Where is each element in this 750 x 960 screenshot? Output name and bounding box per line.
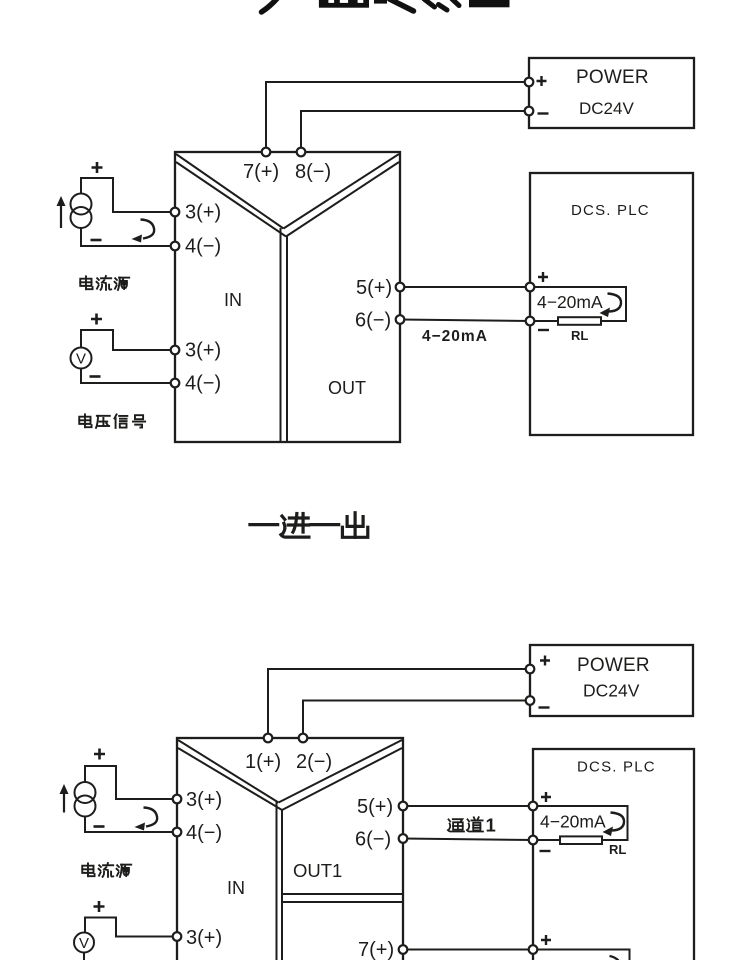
current source wire + [85,766,177,799]
loop arrow dcs ch2 partial [610,956,619,960]
loop arrow current source bottom [135,808,158,831]
current direction arrow up bottom [60,784,69,813]
terminal 3 voltage [173,932,182,941]
svg-text:1: 1 [486,815,496,836]
isolation V left diagonal outer [178,740,279,803]
svg-text:6(−): 6(−) [355,829,391,851]
svg-text:POWER: POWER [576,67,649,88]
wire out 6 [403,839,533,841]
label 电压信号 [79,414,145,428]
wire power - [303,701,530,739]
current source symbol [71,194,92,229]
voltage source symbol [71,348,92,369]
svg-text:OUT1: OUT1 [293,860,342,881]
terminal 5 [396,283,405,292]
label 通道1 [448,817,483,831]
voltage source wire + [85,918,177,937]
svg-text:4−20mA: 4−20mA [537,292,603,312]
isolation V left diagonal inner [178,748,282,810]
isolation V right diagonal outer [279,740,403,803]
svg-text:DCS. PLC: DCS. PLC [577,759,656,776]
svg-text:3(+): 3(+) [186,789,222,811]
char 线 partial [424,0,435,7]
svg-text:2(−): 2(−) [296,751,332,773]
svg-text:IN: IN [227,878,245,898]
svg-text:RL: RL [571,328,588,343]
char 接 partial [374,0,387,4]
isolation barrier vertical double line [280,228,282,442]
loop arrow dcs [600,294,622,318]
wire out 7 [403,949,533,951]
power terminal + [526,665,535,674]
svg-text:POWER: POWER [577,655,650,676]
terminals bottom diagram [173,665,538,954]
POWER box [530,645,693,716]
wire out 5 [403,805,533,807]
svg-text:4(−): 4(−) [186,822,222,844]
loop arrow current source [132,220,155,243]
DCS PLC box [533,749,694,960]
svg-text:4(−): 4(−) [185,373,221,395]
wire out 5 [400,286,530,288]
voltage source wire + [81,330,175,350]
terminal 4 voltage [171,379,180,388]
terminals top diagram [171,78,535,388]
svg-text:RL: RL [609,842,626,857]
svg-text:3(+): 3(+) [185,340,221,362]
isolation V left diagonal inner [176,162,286,237]
svg-text:V: V [76,351,86,368]
svg-text:OUT: OUT [328,378,366,398]
wire power + [266,82,529,152]
svg-text:3(+): 3(+) [186,927,222,949]
svg-text:3(+): 3(+) [185,202,221,224]
current source wire - [85,817,177,833]
current direction arrow up [57,196,66,228]
svg-text:4−20mA: 4−20mA [422,328,488,345]
current loop ch2 partial [533,950,630,960]
svg-text:6(−): 6(−) [355,310,391,332]
plus sign current source [92,162,103,173]
isolation V right diagonal inner [286,162,399,237]
char 产 partial [262,0,278,12]
svg-text:DCS. PLC: DCS. PLC [571,202,650,219]
svg-text:DC24V: DC24V [579,99,634,118]
terminal 7 [399,945,408,954]
dcs terminal + [526,283,535,292]
terminal 7 [262,148,271,157]
svg-text:5(+): 5(+) [356,277,392,299]
plus sign voltage source [91,314,102,325]
power terminal - [525,107,534,116]
current source wire + [81,178,175,212]
terminal 6 [396,315,405,324]
svg-text:8(−): 8(−) [295,161,331,183]
label 电流源 [80,276,129,290]
terminal 6 [399,834,408,843]
voltage source symbol bottom [74,933,94,953]
wire out 6 [400,320,530,322]
svg-text:7(+): 7(+) [358,939,394,960]
isolation V right diagonal outer [284,154,400,229]
wire power + [268,669,530,738]
power terminal + [525,78,534,87]
terminal 5 [399,802,408,811]
isolator main box [177,738,403,960]
svg-text:4(−): 4(−) [185,236,221,258]
terminal 4 current [171,242,180,251]
current source symbol bottom [75,782,96,817]
minus sign current source bottom [94,825,105,828]
char 图 partial [469,0,510,7]
isolator main box [175,152,400,442]
wire power - [301,111,529,152]
minus sign current source [91,239,102,242]
isolation V left diagonal outer [176,154,284,229]
char 品 partial [319,3,369,8]
terminal 3 current [171,208,180,217]
voltage source wire - [81,369,175,384]
current loop rectangle [530,287,626,321]
resistor RL ch1 [560,836,602,844]
terminal 2 [299,734,308,743]
label 电流源 bottom [82,863,131,877]
loop arrow dcs ch1 [603,813,625,837]
dcs terminal + ch2 [529,945,538,954]
svg-text:1(+): 1(+) [245,751,281,773]
out1/out2 divider double line [282,893,403,895]
svg-text:V: V [79,935,89,952]
DCS PLC box [530,173,693,435]
svg-text:DC24V: DC24V [583,681,640,701]
plus sign current source bottom [94,749,105,760]
minus sign voltage source [90,375,101,378]
svg-text:IN: IN [224,290,242,310]
dcs terminal + ch1 [529,802,538,811]
svg-text:5(+): 5(+) [357,796,393,818]
power terminal - [526,696,535,705]
resistor RL [558,317,601,325]
plus sign voltage source bottom [94,901,105,912]
terminal 3 voltage [171,346,180,355]
svg-text:7(+): 7(+) [243,161,279,183]
isolation barrier vertical double line [276,802,278,960]
terminal 3 current [173,795,182,804]
svg-text:4−20mA: 4−20mA [540,812,606,832]
title 产品接线图 (cut off at top) [262,0,510,12]
isolation V right diagonal inner [282,748,402,810]
terminal 1 [264,734,273,743]
current loop rectangle ch1 [533,806,628,840]
dcs terminal - ch1 [529,836,538,845]
current source wire - [81,228,175,246]
POWER box [529,58,694,128]
dcs terminal - [526,317,535,326]
terminal 4 current [173,828,182,837]
terminal 8 [297,148,306,157]
voltage source wire bottom [83,953,85,960]
